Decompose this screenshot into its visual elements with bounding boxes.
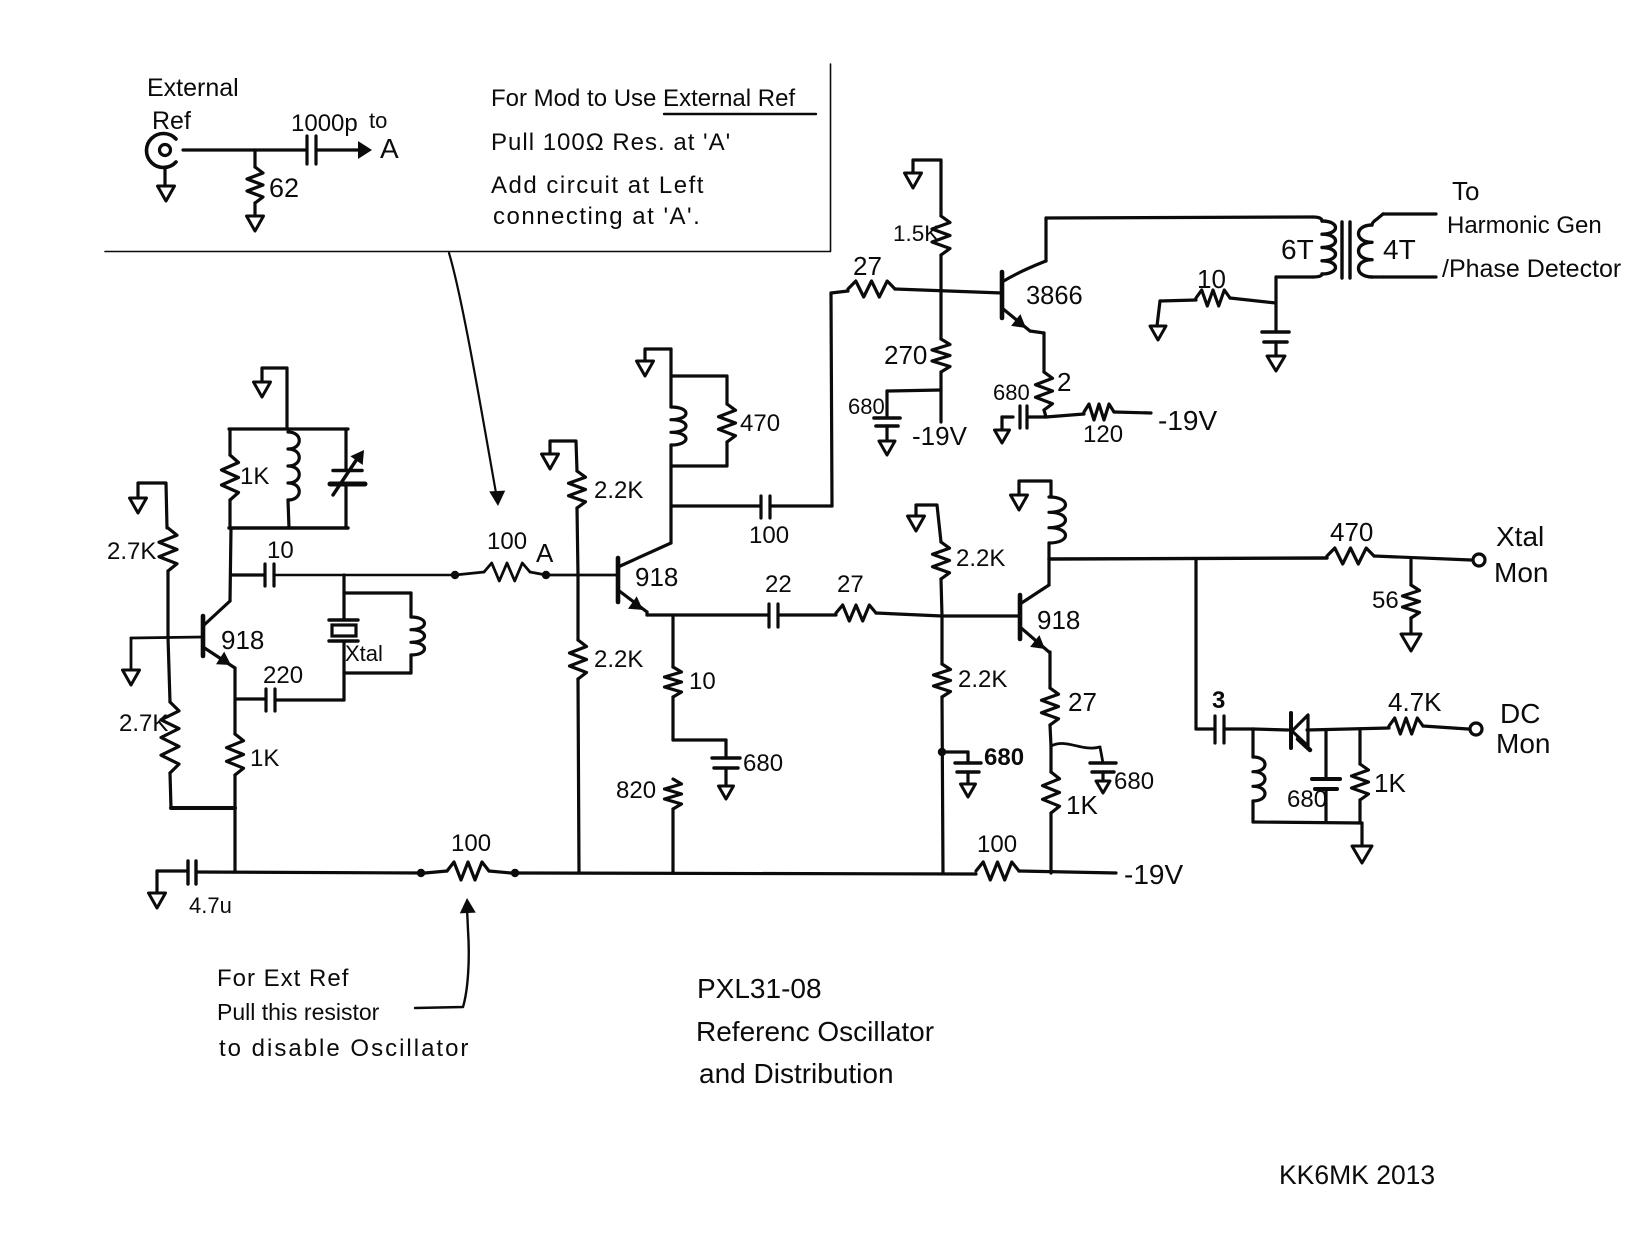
resistor 470 to Xtal Mon [1327, 548, 1374, 564]
resistor 2.7K upper [130, 498, 147, 513]
wire cap to diode [1253, 729, 1288, 730]
ground above 1.5K [905, 173, 922, 188]
svg-text:Mon: Mon [1494, 557, 1548, 588]
svg-text:PXL31-08: PXL31-08 [697, 973, 822, 1004]
wire tank to collector [230, 528, 231, 601]
resistor 2.2K Q3 upper [933, 542, 950, 579]
capacitor 680 3866 emitter [1028, 415, 1046, 418]
terminal DC Mon [1470, 723, 1482, 735]
svg-text:For Mod to Use External Ref: For Mod to Use External Ref [491, 85, 795, 112]
capacitor 3 [1196, 727, 1215, 730]
svg-text:1.5K: 1.5K [893, 221, 939, 246]
svg-text:-19V: -19V [912, 421, 968, 451]
svg-text:220: 220 [263, 662, 303, 689]
inductor parallel crystal [409, 593, 412, 617]
svg-text:680: 680 [743, 750, 783, 777]
svg-text:2.7K: 2.7K [119, 710, 168, 737]
resistor 2.2K Q3 lower [940, 616, 943, 664]
ground at 4.7u [149, 893, 166, 908]
svg-text:A: A [380, 133, 399, 164]
svg-text:100: 100 [749, 522, 789, 549]
ground below resistor 62 [247, 216, 264, 231]
svg-text:External: External [147, 74, 239, 102]
capacitor 22 interstage [767, 604, 770, 627]
wire node A to Q2 base [546, 574, 616, 577]
inductor L1 tank [288, 432, 299, 500]
svg-text:820: 820 [616, 777, 656, 804]
svg-text:62: 62 [269, 173, 299, 203]
svg-text:4.7u: 4.7u [189, 893, 232, 918]
svg-text:680: 680 [1114, 768, 1154, 795]
svg-text:2.2K: 2.2K [956, 545, 1005, 572]
svg-text:and Distribution: and Distribution [699, 1058, 894, 1089]
capacitor 10 output [231, 573, 265, 576]
svg-text:680: 680 [993, 380, 1030, 405]
inductor L3 Q3 collector [1049, 497, 1066, 543]
svg-text:1K: 1K [1374, 768, 1406, 798]
capacitor 680 Q2 emitter bypass [673, 738, 726, 741]
ground above Q3 collector inductor [1011, 495, 1028, 510]
ground above tank [254, 382, 271, 397]
resistor 120 to -19V [1046, 414, 1084, 417]
svg-text:To: To [1452, 176, 1479, 206]
transistor Q2 918 [616, 558, 621, 602]
resistor 2.2K lower bias [576, 575, 579, 640]
resistor 100 rail [425, 871, 447, 873]
capacitor 680 Q3 emitter bypass [1051, 743, 1100, 748]
wire to Q3 base [942, 614, 1020, 617]
wire emitter network [171, 806, 235, 810]
resistor 27 3866 base [831, 291, 848, 293]
terminal Xtal Mon [1473, 554, 1485, 566]
resistor 1.5K [932, 216, 950, 255]
svg-text:3866: 3866 [1026, 282, 1083, 310]
resistor 1K emitter Q1 [233, 668, 236, 734]
capacitor 680 at 270 [887, 390, 941, 391]
wire cap 10 to node A [274, 574, 455, 577]
diode detector [1289, 713, 1293, 748]
capacitor 4.7u [186, 861, 189, 884]
svg-text:470: 470 [1330, 517, 1373, 547]
capacitor bypass at 6T return [1274, 307, 1277, 331]
svg-text:680: 680 [848, 394, 885, 419]
svg-text:For Ext Ref: For Ext Ref [217, 965, 349, 992]
wire 3866 emitter [1030, 331, 1044, 333]
svg-text:22: 22 [765, 571, 792, 598]
crystal bottom wire [344, 671, 411, 674]
resistor 27 Q3 emitter [1048, 652, 1051, 688]
wire Q2 collector riser [669, 349, 672, 407]
wire cap to arrow A [316, 148, 355, 151]
tank bottom wire [229, 526, 348, 529]
transistor Q3 918 [1018, 595, 1023, 639]
capacitor 100 coupling to 3866 [671, 504, 761, 507]
connector J1 External Ref [146, 134, 176, 168]
ground at Q1 base [130, 638, 133, 670]
wire -19V rail left [196, 872, 425, 873]
resistor 470 collector [671, 376, 727, 404]
wire -19V rail right [515, 873, 976, 874]
svg-text:1000p: 1000p [291, 110, 358, 137]
svg-text:120: 120 [1083, 421, 1123, 448]
svg-text:270: 270 [884, 340, 927, 370]
svg-text:10: 10 [267, 537, 294, 564]
inset box border [105, 251, 830, 253]
svg-text:470: 470 [740, 410, 780, 437]
wire Q2 emitter [645, 612, 648, 615]
resistor 270 [932, 339, 950, 372]
svg-text:KK6MK 2013: KK6MK 2013 [1279, 1160, 1435, 1190]
wire riser to 27 resistor 3866 [831, 293, 832, 506]
resistor 2 emitter [1036, 372, 1053, 410]
svg-text:Ref: Ref [152, 107, 191, 135]
ground at 10 resistor [1157, 301, 1160, 326]
resistor 1K detector [1358, 729, 1361, 764]
svg-text:Harmonic Gen: Harmonic Gen [1447, 212, 1602, 239]
resistor 10 Q2 emitter [671, 615, 674, 667]
resistor 56 shunt [1409, 560, 1412, 585]
resistor 2.7K lower [168, 637, 170, 702]
transistor Q4 3866 [1000, 272, 1005, 318]
svg-text:680: 680 [1287, 786, 1327, 813]
inductor L2 collector [671, 407, 686, 445]
crystal Xtal [342, 593, 345, 620]
svg-text:2.7K: 2.7K [107, 538, 156, 565]
wire connector to cap [183, 148, 307, 151]
ground above 2.2K upper [542, 454, 559, 469]
svg-text:1K: 1K [240, 463, 269, 490]
resistor 820 [665, 779, 682, 809]
transistor Q1 918 [201, 616, 206, 656]
transformer primary 6T [1313, 217, 1322, 221]
svg-text:connecting at 'A'.: connecting at 'A'. [493, 203, 701, 230]
wire junction to resistor 62 [253, 150, 256, 167]
svg-text:Referenc Oscillator: Referenc Oscillator [696, 1016, 934, 1047]
svg-text:27: 27 [853, 251, 882, 281]
tank top wire [229, 427, 348, 430]
resistor 27 interstage [778, 613, 836, 616]
svg-text:Pull 100Ω Res. at 'A': Pull 100Ω Res. at 'A' [491, 129, 731, 156]
variable capacitor tank [344, 429, 347, 470]
svg-text:1K: 1K [1066, 790, 1098, 820]
capacitor 220 feedback [235, 697, 266, 700]
ground detector [1352, 846, 1372, 863]
svg-text:918: 918 [1037, 605, 1080, 635]
svg-text:6T: 6T [1281, 234, 1314, 265]
svg-text:Xtal: Xtal [345, 641, 383, 666]
svg-text:100: 100 [977, 831, 1017, 858]
svg-text:A: A [536, 538, 554, 568]
svg-text:918: 918 [635, 562, 678, 592]
svg-text:3: 3 [1212, 687, 1225, 714]
svg-text:Pull this resistor: Pull this resistor [217, 999, 380, 1025]
svg-text:4T: 4T [1383, 234, 1416, 265]
wire drop to detector [1194, 559, 1197, 729]
svg-text:100: 100 [451, 830, 491, 857]
capacitor 680 Q3 base bypass [942, 750, 968, 753]
ground above Q2 collector [637, 361, 654, 376]
wire 3866 collector to transformer [1046, 217, 1313, 218]
svg-text:Mon: Mon [1496, 728, 1550, 759]
svg-text:2.2K: 2.2K [958, 666, 1007, 693]
svg-text:27: 27 [1068, 687, 1097, 717]
svg-text:10: 10 [1197, 264, 1226, 294]
svg-text:/Phase Detector: /Phase Detector [1442, 255, 1621, 283]
ground above 2.2K Q3 upper [908, 516, 925, 531]
crystal branch wire [342, 575, 345, 593]
transformer core [1340, 222, 1343, 278]
svg-text:10: 10 [689, 668, 716, 695]
svg-text:1K: 1K [250, 745, 279, 772]
resistor 62 [247, 167, 263, 203]
svg-text:to disable Oscillator: to disable Oscillator [219, 1035, 470, 1062]
svg-text:2.2K: 2.2K [594, 477, 643, 504]
leader arrow pull this resistor [415, 908, 469, 1008]
resistor 10 damping [1196, 290, 1230, 306]
wire diode to resistor 4.7K [1307, 728, 1389, 730]
leader arrow from inset to node A [449, 253, 496, 493]
wire Q1 base [131, 637, 203, 638]
transformer secondary 4T [1372, 214, 1383, 225]
resistor 1K tank [228, 429, 231, 455]
svg-text:Xtal: Xtal [1496, 521, 1544, 552]
inductor shunt detector [1251, 729, 1254, 757]
resistor 100 series A [455, 572, 484, 575]
svg-text:DC: DC [1500, 698, 1540, 729]
ground at connector [163, 167, 166, 186]
svg-text:Add circuit at Left: Add circuit at Left [491, 172, 705, 199]
svg-text:to: to [369, 108, 387, 133]
svg-text:680: 680 [984, 744, 1024, 771]
svg-text:56: 56 [1372, 587, 1399, 614]
svg-text:918: 918 [221, 625, 264, 655]
svg-text:-19V: -19V [1124, 859, 1183, 890]
wire detector bottom [1253, 822, 1362, 823]
wire Q3 output [1049, 558, 1327, 559]
svg-text:2: 2 [1057, 367, 1071, 397]
resistor 4.7K to DC Mon [1389, 718, 1423, 734]
svg-text:4.7K: 4.7K [1388, 687, 1442, 717]
svg-text:100: 100 [487, 528, 527, 555]
svg-text:27: 27 [837, 571, 864, 598]
capacitor 1000p [305, 136, 308, 164]
svg-text:-19V: -19V [1158, 405, 1217, 436]
resistor 2.2K upper bias [569, 471, 586, 508]
resistor 1K Q3 emitter [1049, 746, 1052, 772]
capacitor 680 detector [1324, 730, 1327, 778]
svg-text:2.2K: 2.2K [594, 646, 643, 673]
